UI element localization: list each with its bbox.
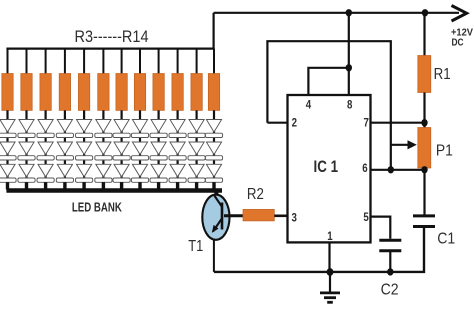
resistor R1 xyxy=(418,56,431,93)
wire: LED string column 9 vertical xyxy=(158,110,160,188)
wire: stub from bus to resistor R8 xyxy=(102,49,104,74)
LED string column 12 (3 series LEDs) xyxy=(205,120,222,183)
wire: LED string column 5 vertical xyxy=(83,110,85,188)
resistor R12 xyxy=(172,74,183,111)
LED string column 1 (3 series LEDs) xyxy=(0,120,16,183)
LED string column 8 (3 series LEDs) xyxy=(131,120,148,183)
wire: P1 wiper branch xyxy=(391,144,410,146)
LED string column 3 (3 series LEDs) xyxy=(37,120,54,183)
wire: thick stub column 2 to LED return bus xyxy=(25,182,28,189)
resistor R10 xyxy=(134,74,145,111)
svg-text:DC: DC xyxy=(452,37,464,48)
wire: stub from bus to resistor R10 xyxy=(139,49,141,74)
svg-text:LED BANK: LED BANK xyxy=(72,200,122,215)
wire: LED bank return bus (thick) xyxy=(6,188,222,193)
wire: pin 4 loop to pin 8 riser xyxy=(308,68,348,95)
resistor R6 xyxy=(59,74,70,111)
wire: pin 5 to C2 xyxy=(371,217,391,239)
svg-text:8: 8 xyxy=(347,100,353,112)
LED string column 2 (3 series LEDs) xyxy=(18,120,35,183)
svg-text:6: 6 xyxy=(362,163,367,175)
transistor T1 (NPN, ellipse body) xyxy=(202,195,229,240)
node: junction pin 4 loop / pin 8 riser xyxy=(346,64,352,71)
LED string column 10 (3 series LEDs) xyxy=(169,120,186,183)
node: junction P1 bottom / C1 xyxy=(421,166,427,173)
wire: thick stub column 3 to LED return bus xyxy=(44,182,47,189)
wire: thick stub column 10 to LED return bus xyxy=(176,182,179,189)
svg-text:IC 1: IC 1 xyxy=(314,157,339,176)
label +12V DC xyxy=(451,28,473,49)
node: junction pin 7 / R1 / P1 xyxy=(421,119,427,126)
wire: R2 to IC1 pin 3 xyxy=(274,215,287,218)
wire: thick stub column 8 to LED return bus xyxy=(138,182,141,189)
svg-text:C2: C2 xyxy=(381,281,399,298)
resistor R8 xyxy=(98,74,109,111)
LED string column 11 (3 series LEDs) xyxy=(188,120,205,183)
svg-text:2: 2 xyxy=(292,117,297,129)
LED string column 6 (3 series LEDs) xyxy=(95,120,112,183)
resistor R2 xyxy=(243,209,274,221)
wire: LED string column 6 vertical xyxy=(102,110,104,188)
wire: stub from bus to resistor R11 xyxy=(158,49,160,74)
wire: R1 to pin 7 node xyxy=(423,93,425,128)
LED string column 4 (3 series LEDs) xyxy=(56,120,73,183)
capacitor C1 xyxy=(413,216,435,227)
svg-text:4: 4 xyxy=(306,100,312,112)
svg-text:C1: C1 xyxy=(437,231,455,248)
wire: top rail down to R1 xyxy=(423,13,425,56)
svg-text:1: 1 xyxy=(327,231,333,243)
node: junction pin 1 / ground bus xyxy=(327,268,334,276)
wire: thick stub column 7 to LED return bus xyxy=(120,182,123,189)
wire: LED string column 10 vertical xyxy=(177,110,179,188)
wire: pin 6 to P1 bottom xyxy=(371,169,425,171)
resistor R5 xyxy=(40,74,51,111)
wire: emitter of T1 down to ground bus xyxy=(213,239,215,272)
LED string column 5 (3 series LEDs) xyxy=(76,120,93,183)
svg-text:5: 5 xyxy=(363,212,369,224)
wire: stub from bus to resistor R4 xyxy=(26,49,28,74)
svg-text:R1: R1 xyxy=(434,66,451,83)
resistor R11 xyxy=(153,74,164,111)
wire: thick stub column 12 to LED return bus xyxy=(212,182,215,189)
node: junction pin 2/6 loop on pin 6 line xyxy=(388,166,394,173)
arrowhead: +12V supply xyxy=(452,6,467,22)
wire: pin 2 stub xyxy=(267,122,287,124)
wire: stub from bus to resistor R12 xyxy=(177,49,179,74)
wire: pin 1 down to ground bus xyxy=(328,242,330,272)
wire: LED string column 8 vertical xyxy=(139,110,141,188)
wire: thick stub column 5 to LED return bus xyxy=(82,182,85,189)
wire: C2 bottom to ground bus xyxy=(389,252,391,272)
wire: stub from bus to resistor R5 xyxy=(45,49,47,74)
svg-text:7: 7 xyxy=(364,117,369,129)
wire: LED string column 1 vertical xyxy=(6,110,8,188)
wire: pin 7 to P1 top xyxy=(371,122,425,124)
capacitor C2 xyxy=(379,240,401,250)
timer IC1 box (IC 1) xyxy=(288,95,371,242)
wire: LED string column 7 vertical xyxy=(120,110,122,188)
wire: top +12V supply rail xyxy=(214,12,459,14)
resistor R13 xyxy=(191,74,202,111)
LED string column 7 (3 series LEDs) xyxy=(113,120,130,183)
wire: +V bus over resistor bank xyxy=(6,47,214,49)
wire: base of T1 to resistor R2 xyxy=(224,214,243,217)
wire: riser from resistor bank bus to top supply rail xyxy=(213,13,215,49)
wire: collector stub from LED bus into T1 xyxy=(214,190,218,198)
resistor R14 xyxy=(208,74,219,111)
resistor R7 xyxy=(78,74,89,111)
arrowhead: P1 wiper xyxy=(408,140,417,149)
wire: thick stub column 4 to LED return bus xyxy=(63,182,66,189)
potentiometer P1 body xyxy=(418,128,431,169)
svg-text:R2: R2 xyxy=(247,186,264,203)
svg-text:T1: T1 xyxy=(188,238,203,255)
wire: stub from bus to resistor R14 xyxy=(213,49,215,74)
wire: stub from bus to resistor R13 xyxy=(196,49,198,74)
wire: stub from bus to resistor R3 xyxy=(7,49,9,74)
wire: P1 bottom vertical xyxy=(423,168,425,215)
ground symbol xyxy=(320,272,340,302)
resistor R4 xyxy=(21,74,32,111)
LED string column 9 (3 series LEDs) xyxy=(150,120,167,183)
wire: thick stub column 1 to LED return bus xyxy=(6,182,9,189)
resistor R3 xyxy=(2,74,13,111)
wire: thick stub column 9 to LED return bus xyxy=(157,182,160,189)
wire: stub from bus to resistor R9 xyxy=(121,49,123,74)
wire: LED string column 4 vertical xyxy=(64,110,66,188)
svg-text:P1: P1 xyxy=(436,143,453,160)
node: junction C2 / ground bus xyxy=(387,268,393,275)
node: junction top rail / R1 xyxy=(422,9,428,16)
wire: LED string column 3 vertical xyxy=(44,110,46,188)
wire: stub from bus to resistor R6 xyxy=(64,49,66,74)
wire: stub from bus to resistor R7 xyxy=(83,49,85,74)
node: junction top rail / pin 8 riser xyxy=(346,9,352,16)
wire: LED string column 11 vertical xyxy=(196,110,198,188)
wire: LED string column 12 vertical xyxy=(213,110,215,188)
wire: LED string column 2 vertical xyxy=(25,110,27,188)
wire: pin 2 to pin 6 loop over IC xyxy=(267,41,390,170)
wire: C1 bottom to ground bus corner xyxy=(214,228,424,272)
svg-text:R3------R14: R3------R14 xyxy=(75,27,149,46)
wire: thick stub column 11 to LED return bus xyxy=(195,182,198,189)
wire: thick stub column 6 to LED return bus xyxy=(102,182,105,189)
wire: pin 8 riser to top rail xyxy=(348,13,350,95)
resistor R9 xyxy=(116,74,127,111)
svg-text:3: 3 xyxy=(292,213,297,225)
